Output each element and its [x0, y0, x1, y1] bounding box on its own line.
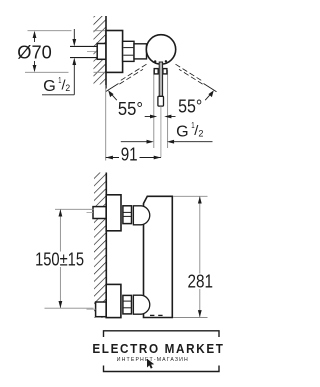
bottom union centerline: [87, 308, 96, 310]
svg-text:G: G: [43, 78, 56, 95]
dim arrow down (dia70): [33, 61, 37, 72]
union nut: [123, 41, 134, 61]
wall face line: [105, 16, 107, 89]
bottom union cap: [133, 295, 149, 314]
clamp square right: [163, 69, 167, 74]
91 dimension: [106, 144, 161, 164]
bottom union nut: [123, 295, 132, 314]
svg-text:150±15: 150±15: [35, 250, 84, 270]
outlet dashes at body bottom: [150, 314, 154, 316]
solid continuation: [204, 84, 217, 92]
lever shaft: [159, 62, 162, 96]
281 dimension: [186, 196, 215, 317]
ball dot left: [154, 60, 156, 62]
top union centerline: [87, 212, 94, 214]
svg-text:Ø70: Ø70: [17, 42, 52, 62]
top union cap: [133, 206, 149, 225]
logo frame: [104, 331, 220, 372]
solid continuation: [106, 84, 119, 92]
wall hatch (side view): [94, 16, 107, 89]
top union nut: [123, 206, 132, 224]
extension line flange top (dia 70): [28, 30, 72, 32]
svg-text:281: 281: [188, 272, 214, 292]
svg-text:2: 2: [65, 83, 70, 93]
dashed lever position left: [106, 64, 147, 92]
150 dimension: [34, 209, 86, 308]
top union tail: [93, 207, 106, 219]
svg-text:91: 91: [121, 144, 138, 164]
leader arrow left 55: [108, 90, 117, 100]
G1/2 width arrows (outlet): [121, 140, 213, 144]
281 dim extension bottom: [173, 317, 208, 319]
svg-text:55°: 55°: [178, 97, 202, 117]
G1/2 leader arrow down (pipe top): [72, 29, 76, 46]
escutcheon flange: [106, 31, 123, 73]
dashed lever position right: [176, 64, 217, 92]
svg-text:ELECTRO MARKET: ELECTRO MARKET: [92, 341, 223, 356]
svg-text:ИНТЕРНЕТ-МАГАЗИН: ИНТЕРНЕТ-МАГАЗИН: [117, 357, 188, 363]
svg-text:55°: 55°: [118, 99, 143, 119]
ball dot right: [165, 60, 167, 62]
pipe centerline: [87, 51, 97, 53]
extension line flange bottom (dia 70): [25, 71, 69, 73]
label G 1/2 (outlet): [176, 120, 203, 140]
150 dim extension top: [55, 208, 94, 210]
G1/2 leader arrow up (pipe bottom): [72, 58, 76, 95]
bottom union flange: [106, 284, 121, 317]
svg-text:G: G: [176, 123, 189, 140]
top union flange: [106, 195, 121, 231]
wall hatch (front view): [94, 173, 106, 318]
bottom union tail: [96, 302, 107, 317]
label G 1/2 (top left): [42, 75, 74, 95]
body column: [144, 196, 173, 317]
91 dim extension line (wall face): [105, 85, 107, 161]
lever tip: [158, 96, 164, 106]
55 deg arrows at centerline: [145, 115, 176, 119]
wall face line: [105, 173, 107, 318]
leader arrow right 55: [205, 90, 214, 100]
dim arrow up (dia70): [33, 31, 37, 42]
union tail in wall: [97, 44, 106, 60]
outlet edge right (thin): [167, 70, 169, 148]
clamp square left: [154, 69, 158, 74]
281 dim extension top: [173, 195, 208, 197]
cursor icon: [147, 359, 154, 369]
150 dim extension bottom: [45, 307, 94, 309]
ball body: [146, 35, 175, 64]
outlet edge left (thin): [153, 70, 155, 148]
collar between nut and ball: [134, 44, 147, 59]
lever centerline below tip: [160, 106, 162, 157]
svg-text:2: 2: [198, 128, 203, 138]
supply pipe in wall: [70, 46, 98, 57]
